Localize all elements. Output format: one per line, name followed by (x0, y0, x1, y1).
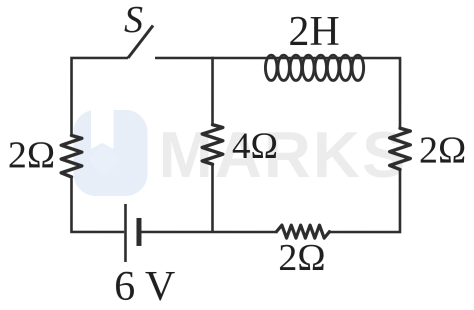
resistor R4 zigzag (bottom, horizontal) (276, 225, 329, 238)
svg-text:2H: 2H (288, 9, 339, 55)
inductor L1 coil (265, 55, 363, 80)
svg-text:2Ω: 2Ω (278, 237, 325, 279)
resistor R2 zigzag (202, 125, 223, 165)
svg-text:4Ω: 4Ω (232, 126, 278, 167)
switch S blade (128, 25, 153, 58)
svg-text:6 V: 6 V (114, 264, 175, 310)
battery B1 short plate (-) (136, 218, 141, 246)
wire right branch bottom (R3 down to bottom-right corner, left to resistor R4) (328, 169, 400, 232)
svg-text:2Ω: 2Ω (419, 130, 466, 172)
svg-text:S: S (124, 0, 143, 41)
svg-text:MARKS: MARKS (159, 118, 408, 191)
wire top (switch contact through node B to top-right corner, down to R3) (155, 58, 400, 128)
resistor R1 zigzag (left branch) (61, 135, 82, 177)
wire bottom (battery B1 through node C to resistor R4) (141, 231, 277, 234)
svg-text:2Ω: 2Ω (8, 135, 55, 177)
battery B1 long plate (+) (124, 204, 127, 262)
wire bottom-left (R1 to battery B1) (71, 177, 124, 232)
wire middle branch top (node B down to resistor R2) (211, 57, 214, 125)
wire middle branch bottom (R2 to node C) (211, 164, 214, 233)
watermark logo tile (73, 110, 147, 196)
resistor R3 zigzag (right branch) (390, 128, 411, 169)
wire top-left (node A to switch) and left branch down to resistor R1 (72, 58, 129, 136)
